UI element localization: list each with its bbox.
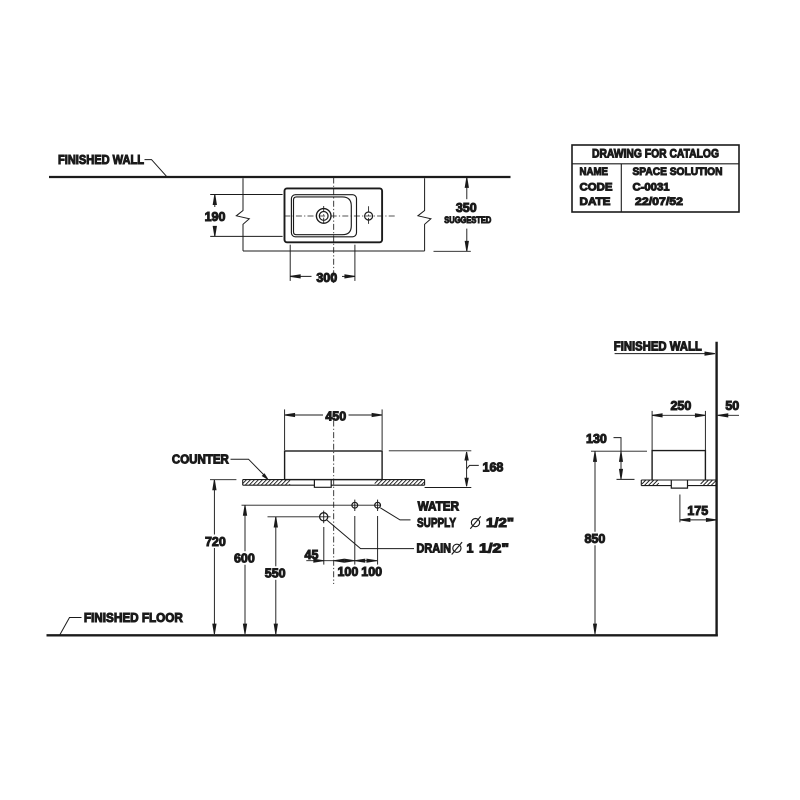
finished wall label underline leader (side view) [615, 353, 708, 355]
counter left edge with break (top view) [236, 178, 249, 251]
water supply level line [242, 504, 381, 506]
diameter symbol (water supply) [470, 516, 480, 528]
svg-text:NAME: NAME [580, 166, 609, 178]
drain tailpiece (front view) [314, 480, 331, 488]
dimension 350 line and arrows [434, 177, 471, 251]
svg-text:100: 100 [337, 565, 358, 579]
svg-text:CODE: CODE [580, 182, 613, 194]
svg-text:1/2": 1/2" [479, 541, 509, 555]
drain extension line down [323, 527, 325, 565]
counter slab bottom line (front view) [243, 484, 315, 486]
svg-text:1: 1 [467, 541, 474, 555]
svg-text:SUGGESTED: SUGGESTED [444, 215, 491, 225]
svg-text:COUNTER: COUNTER [172, 452, 229, 466]
water supply label leader [380, 508, 410, 520]
counter slab top line (side view) [641, 479, 716, 481]
finished wall leader (top view) [145, 160, 167, 177]
counter slab bottom line (side view) [641, 485, 671, 487]
svg-text:FINISHED FLOOR: FINISHED FLOOR [84, 611, 183, 625]
basin profile side view [652, 451, 705, 480]
svg-text:450: 450 [325, 409, 346, 423]
dimension 450 line and arrows [285, 413, 383, 416]
dimension 168 bottom extension [425, 487, 472, 489]
svg-text:190: 190 [205, 210, 226, 224]
drain circle (front view) [320, 513, 328, 521]
drain circle vertical tick [323, 511, 325, 524]
counter label [172, 452, 229, 466]
finished wall label (side view) [614, 339, 702, 353]
water supply circle 2 [375, 502, 381, 508]
dimension 130 leader hook [614, 438, 622, 448]
svg-text:550: 550 [265, 567, 286, 581]
title block outer frame [572, 145, 739, 212]
dimension 168 line and arrows [465, 452, 468, 486]
drain label [417, 541, 452, 555]
svg-text:SPACE SOLUTION: SPACE SOLUTION [633, 166, 723, 178]
counter slab top line (front view) [243, 479, 425, 481]
finished wall line (top view) [49, 176, 511, 178]
sink horizontal centerline (top view) [284, 215, 396, 217]
drain label leader [327, 520, 415, 549]
svg-text:45: 45 [305, 548, 319, 562]
title block vertical divider [620, 164, 622, 212]
dimension 168 leader [467, 465, 479, 469]
svg-text:720: 720 [205, 535, 226, 549]
svg-text:DRAWING FOR CATALOG: DRAWING FOR CATALOG [592, 147, 719, 161]
supply 2 extension line down [377, 516, 379, 565]
faucet hole inner circle (top view) [319, 212, 328, 221]
counter slab hatching right (side view) [701, 480, 717, 486]
counter slab end cap (side view) [640, 480, 642, 486]
dimension 450 extension lines [284, 409, 286, 450]
front view vertical centerline [333, 421, 335, 585]
sink vertical centerline (top view) [333, 178, 335, 284]
dimension 720 line and arrows [213, 480, 216, 634]
dimension 190 line and arrows [213, 195, 216, 237]
counter label leader [231, 459, 267, 477]
supply 1 extension line down [354, 516, 356, 565]
dimension 130 bottom extension [617, 478, 635, 480]
svg-text:100: 100 [361, 565, 382, 579]
dimension 250 line and arrows [652, 414, 705, 417]
svg-text:130: 130 [586, 432, 607, 446]
svg-text:22/07/52: 22/07/52 [635, 196, 683, 208]
dimension 550 top extension [268, 516, 331, 518]
faucet hole vertical centerline [323, 206, 325, 226]
basin profile front view [285, 451, 383, 480]
counter slab end caps (front view) [242, 480, 244, 486]
dimension 300 line and arrows [290, 275, 355, 278]
finished wall label (top view) [58, 153, 144, 167]
svg-text:175: 175 [687, 504, 708, 518]
water supply label [417, 500, 459, 531]
dimension 550 line and arrows [274, 517, 277, 634]
finished floor label [84, 611, 183, 625]
dimension 130 top extension [591, 450, 647, 452]
dimension 720 top extension [210, 479, 236, 481]
dimension 45-100-100 arrows [314, 559, 377, 562]
svg-text:168: 168 [483, 460, 504, 474]
dimension 300 extension lines [289, 245, 291, 281]
faucet hole outer circle (top view) [316, 209, 331, 224]
svg-text:FINISHED WALL: FINISHED WALL [58, 153, 144, 167]
diameter symbol (drain) [452, 542, 462, 554]
dimension 175 extension line [679, 495, 681, 523]
finished floor line [47, 634, 718, 636]
title block horizontal divider [572, 163, 739, 165]
dimension 45-100-100 line [306, 560, 377, 562]
finished wall line (side view) [715, 342, 717, 637]
svg-text:SUPPLY: SUPPLY [417, 516, 457, 530]
dimension 850 line and arrows [594, 451, 597, 634]
svg-text:C-0031: C-0031 [633, 182, 670, 194]
svg-text:DATE: DATE [580, 196, 611, 208]
counter front edge (top view) [243, 250, 425, 252]
svg-text:FINISHED WALL: FINISHED WALL [614, 339, 702, 353]
svg-text:350: 350 [456, 201, 477, 215]
dimension 168 top extension [389, 450, 472, 452]
sink outer rim (top view) [285, 188, 383, 242]
svg-text:300: 300 [316, 271, 337, 285]
counter slab hatching left (front view) [243, 480, 290, 486]
basin rim outer edge (top view) [291, 195, 356, 237]
counter right edge with break (top view) [418, 178, 431, 251]
svg-text:1/2": 1/2" [486, 516, 514, 530]
dimension 130 line and arrows [620, 448, 623, 479]
svg-text:850: 850 [584, 532, 605, 546]
svg-text:WATER: WATER [418, 500, 460, 514]
svg-text:DRAIN: DRAIN [417, 541, 452, 555]
svg-text:250: 250 [670, 399, 691, 413]
svg-text:600: 600 [234, 552, 255, 566]
deck hole vertical centerline [368, 206, 370, 225]
deck hole circle (top view) [365, 212, 373, 220]
dimension 175 line and arrows [680, 518, 717, 521]
counter slab hatching left (side view) [642, 480, 659, 486]
drain trap (side view) [671, 480, 687, 488]
dimension 50 line and arrow [718, 414, 739, 417]
dimension 190 extension lines [210, 194, 282, 196]
finished floor label leader [60, 618, 82, 635]
water supply circle 1 [352, 502, 358, 508]
dimension 600 line and arrows [243, 505, 246, 634]
basin rim inner edge (top view) [294, 197, 352, 235]
counter slab hatching right (front view) [375, 480, 425, 486]
dimension 250 extension lines [651, 411, 653, 451]
svg-text:50: 50 [725, 399, 739, 413]
